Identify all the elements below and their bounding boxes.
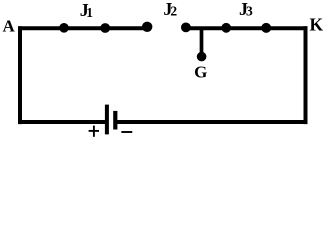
svg-text:G: G [194,63,207,82]
svg-text:1: 1 [86,5,93,20]
svg-text:2: 2 [170,4,177,19]
svg-text:A: A [3,17,16,36]
svg-text:3: 3 [246,4,253,19]
svg-text:K: K [309,15,323,35]
